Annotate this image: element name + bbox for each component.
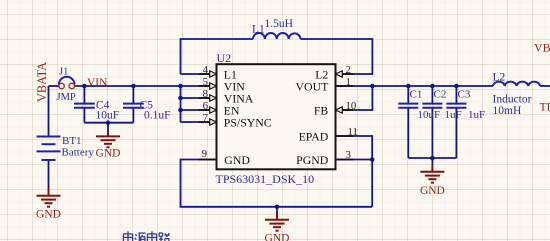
svg-text:3: 3 <box>346 149 351 161</box>
svg-text:C1: C1 <box>410 89 423 101</box>
svg-text:VBATA: VBATA <box>35 62 49 102</box>
svg-text:VOUT: VOUT <box>296 80 330 94</box>
svg-text:10uF: 10uF <box>96 110 120 122</box>
svg-text:VIN: VIN <box>87 77 108 89</box>
svg-text:4: 4 <box>203 64 209 76</box>
svg-text:0.1uF: 0.1uF <box>144 110 171 122</box>
svg-text:TPS63031_DSK_10: TPS63031_DSK_10 <box>216 172 315 186</box>
svg-text:8: 8 <box>203 88 208 100</box>
svg-text:1.5uH: 1.5uH <box>265 18 293 30</box>
svg-text:10: 10 <box>346 100 357 112</box>
svg-text:U2: U2 <box>217 51 232 65</box>
svg-text:VB_: VB_ <box>534 41 550 55</box>
svg-text:PGND: PGND <box>296 153 329 167</box>
svg-text:L2: L2 <box>493 72 506 84</box>
svg-text:1uF: 1uF <box>468 109 485 121</box>
svg-text:11: 11 <box>348 126 358 138</box>
svg-text:2: 2 <box>346 64 351 76</box>
svg-text:9: 9 <box>202 148 207 160</box>
svg-text:J1: J1 <box>59 67 68 78</box>
svg-text:EPAD: EPAD <box>299 130 329 144</box>
svg-text:Battery: Battery <box>62 147 95 159</box>
svg-text:6: 6 <box>203 100 209 112</box>
svg-text:L1: L1 <box>252 24 265 36</box>
svg-text:1uF: 1uF <box>445 109 462 121</box>
svg-text:5: 5 <box>203 76 208 88</box>
svg-text:Inductor: Inductor <box>493 94 532 106</box>
svg-text:7: 7 <box>203 112 209 124</box>
svg-text:GND: GND <box>420 185 445 197</box>
svg-text:GND: GND <box>96 147 121 159</box>
svg-text:GND: GND <box>224 153 250 167</box>
svg-text:FB: FB <box>314 104 329 118</box>
svg-text:TI[: TI[ <box>540 102 550 114</box>
svg-text:10uF: 10uF <box>418 109 441 121</box>
svg-text:10mH: 10mH <box>493 105 522 117</box>
svg-text:C3: C3 <box>458 89 471 101</box>
svg-text:GND: GND <box>36 209 61 221</box>
svg-text:C2: C2 <box>434 89 447 101</box>
svg-text:PS/SYNC: PS/SYNC <box>224 116 272 130</box>
svg-text:1: 1 <box>346 76 351 88</box>
svg-text:BT1: BT1 <box>62 135 82 147</box>
svg-text:GND: GND <box>265 233 290 241</box>
svg-text:JMP: JMP <box>57 92 76 103</box>
